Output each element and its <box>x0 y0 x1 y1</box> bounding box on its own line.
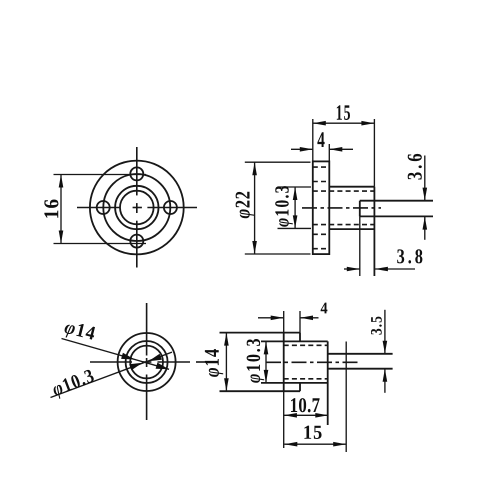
dimension phi10.3 top-right: arrow up <box>293 187 298 200</box>
top-right view: body bottom line <box>329 228 374 230</box>
dimension 15 bottom: dimension line <box>284 443 346 445</box>
dimension phi22: arrow down <box>252 241 257 254</box>
dimension 3.6: arrow down <box>423 188 428 201</box>
dimension phi22: extension line bottom <box>245 253 311 255</box>
top-left view: bolt hole right <box>164 201 177 214</box>
top-left view: thread circle <box>120 191 154 225</box>
top-right view: bore hidden line top <box>313 190 375 192</box>
top-right view: flange bolt hole hidden line bottom upper <box>313 233 330 235</box>
dimension 15 top: extension line right <box>373 119 375 187</box>
dimension phi10.3 bottom-right: dimension line <box>265 341 267 383</box>
bottom-left view: vertical centerline upper <box>146 303 148 356</box>
top-left view: vertical centerline upper <box>136 147 138 195</box>
top-left view: horizontal centerline left <box>77 207 119 209</box>
bottom-right view: collar right edge top <box>299 333 301 342</box>
bottom-right view: axis centerline <box>266 361 359 363</box>
dimension 3.5: arrow down <box>383 341 388 354</box>
dimension phi22: label <box>236 192 254 219</box>
top-left view: vertical centerline lower <box>136 221 138 268</box>
dimension phi10.3 bottom-right: label <box>247 339 265 383</box>
dimension 15 top: arrow right <box>361 121 374 126</box>
leader phi10.3: arrow inner <box>129 363 142 371</box>
leader phi14: arrow inner <box>121 353 134 360</box>
dimension 3.5: dimension line lower <box>384 369 386 393</box>
bottom-left view: vertical centerline lower <box>146 375 148 421</box>
dimension 16: dimension line <box>60 175 62 244</box>
leader phi10.3: label <box>51 369 96 400</box>
top-left view: bolt hole top <box>130 167 143 180</box>
top-right view: axis centerline <box>302 207 381 209</box>
dimension 4 top: arrow from left <box>300 147 313 152</box>
dimension 4 bottom-right: arrow from left <box>271 316 284 321</box>
dimension 10.7: arrow left <box>284 413 297 418</box>
dimension 4 top: label <box>317 132 324 147</box>
bottom-left view: centerline dash right <box>196 361 207 363</box>
dimension phi22: dimension line <box>254 162 256 254</box>
leader phi14: label <box>63 320 96 344</box>
dimension 3.5: label <box>371 317 382 335</box>
top-left view: vertical centerline center dash <box>136 203 138 213</box>
dimension 4 bottom-right: label <box>321 303 328 314</box>
top-right view: rod bottom line <box>360 215 433 217</box>
dimension 3.6: dimension line lower <box>424 217 426 240</box>
dimension 3.8: arrow from left <box>347 267 360 272</box>
dimension phi22: extension line top <box>245 161 311 163</box>
top-right view: bore hidden line bottom <box>313 224 375 226</box>
dimension 15 bottom: extension line left lower <box>283 391 285 448</box>
leader phi10.3: leader line <box>51 352 173 397</box>
dimension phi10.3 bottom-right: arrow down <box>264 370 269 383</box>
dimension 3.6: arrow up <box>423 217 428 230</box>
bottom-right view: body right face with extension down <box>327 341 329 425</box>
dimension 15 top: extension line left <box>312 119 314 161</box>
bottom-right view: bore hidden line bottom <box>284 378 328 380</box>
top-left view: bolt circle <box>103 174 170 241</box>
bottom-left view: outer circle phi14 <box>118 333 176 391</box>
top-right view: flange bolt hole hidden line bottom lower <box>313 248 330 250</box>
top-right view: flange plate outline <box>313 161 330 254</box>
dimension 4 top: dimension line left tail <box>291 148 313 150</box>
bottom-left view: circle phi10.3 <box>126 341 168 383</box>
dimension 4 bottom-right: dimension line left tail <box>258 317 284 319</box>
bottom-right view: collar top line with phi14 extension <box>220 332 301 334</box>
top-right view: rod left end <box>359 201 361 217</box>
dimension 10.7: dimension line <box>284 414 328 416</box>
bottom-right view: bore hidden line top <box>284 344 328 346</box>
top-right view: body right face with extension for 3.8 <box>373 187 375 276</box>
dimension phi22: arrow up <box>252 162 257 175</box>
bottom-left view: horizontal centerline left <box>90 361 132 363</box>
dimension 15 bottom: arrow right <box>333 442 346 447</box>
bottom-right view: collar right edge bottom <box>299 383 301 391</box>
top-right view: body top line <box>329 186 374 188</box>
bottom-right view: rod bottom line <box>328 368 393 370</box>
dimension phi10.3 top-right: arrow down <box>293 215 298 228</box>
dimension 3.6: dimension line upper <box>424 156 426 201</box>
dimension 3.8: dimension line left tail <box>344 268 360 270</box>
dimension phi14 bottom-right: arrow up <box>224 333 229 346</box>
dimension 4 top: arrow from right <box>329 147 342 152</box>
top-left view: bore circle phi10.3 <box>115 186 158 229</box>
dimension 3.8: dimension line right tail <box>375 268 415 270</box>
dimension 16: extension line top <box>54 174 147 176</box>
dimension phi10.3 top-right: label <box>275 186 293 227</box>
top-right view: rod left extension for 3.8 <box>359 216 361 276</box>
dimension 15 bottom: label <box>304 426 321 439</box>
dimension 15 top: label <box>337 105 350 120</box>
dimension phi10.3 top-right: extension line top <box>278 186 312 188</box>
leader phi14: arrow outer <box>156 363 169 370</box>
dimension 4 top: extension line right <box>328 144 330 161</box>
dimension phi14 bottom-right: dimension line <box>225 333 227 392</box>
dimension phi10.3 top-right: dimension line <box>294 187 296 228</box>
top-right view: rod top line <box>360 200 433 202</box>
bottom-right view: body top line with extension <box>261 340 328 342</box>
top-right view: flange bolt hole hidden line top lower <box>313 181 330 183</box>
bottom-right view: rod top line <box>328 353 393 355</box>
bottom-left view: vertical centerline center dash <box>146 358 148 367</box>
top-left view: bolt hole bottom <box>130 235 143 248</box>
dimension 15 bottom: arrow left <box>284 442 297 447</box>
dimension 10.7: label <box>291 398 320 412</box>
top-left view: bolt hole left <box>97 201 110 214</box>
bottom-right view: body bottom line with extension <box>261 382 328 384</box>
dimension 3.5: dimension line upper <box>384 310 386 354</box>
top-left view: flange outer circle phi22 <box>90 161 184 255</box>
dimension 16: arrow down <box>59 231 64 244</box>
dimension phi10.3 top-right: extension line bottom <box>278 227 312 229</box>
top-left view: horizontal centerline center dash <box>133 207 142 209</box>
dimension 3.8: arrow from right <box>375 267 388 272</box>
bottom-right view: collar bottom line with phi14 extension <box>220 390 301 392</box>
dimension 4 top: dimension line right tail <box>329 148 353 150</box>
bottom-left view: horizontal centerline right <box>158 361 191 363</box>
dimension 15 top: dimension line <box>313 122 375 124</box>
dimension 16: extension line bottom <box>54 243 147 245</box>
top-right view: flange bolt hole hidden line top upper <box>313 166 330 168</box>
dimension 4 bottom-right: dimension line right tail <box>300 317 319 319</box>
dimension phi10.3 bottom-right: arrow up <box>264 341 269 354</box>
dimension 15 top: arrow left <box>313 121 326 126</box>
leader phi10.3: arrow outer <box>149 354 162 362</box>
bottom-left view: thread circle <box>130 346 163 379</box>
dimension 15 bottom: extension line right <box>345 342 347 453</box>
dimension 10.7: arrow right <box>315 413 328 418</box>
dimension phi14 bottom-right: label <box>205 349 223 377</box>
dimension 4 bottom-right: arrow from right <box>300 316 313 321</box>
dimension 3.8: label <box>397 249 422 263</box>
dimension 4 bottom-right: extension line left <box>283 311 285 333</box>
dimension phi14 bottom-right: arrow down <box>224 378 229 391</box>
top-left view: horizontal centerline right <box>147 207 197 209</box>
bottom-left view: horizontal centerline center dash <box>142 361 151 363</box>
leader phi14: leader line <box>62 339 170 370</box>
dimension 3.6: label <box>408 154 422 180</box>
bottom-right view: part left face <box>283 333 285 392</box>
dimension 16: arrow up <box>59 175 64 188</box>
dimension 16: label <box>44 200 58 218</box>
dimension 3.5: arrow up <box>383 369 388 382</box>
dimension 4 bottom-right: extension line right <box>299 311 301 333</box>
